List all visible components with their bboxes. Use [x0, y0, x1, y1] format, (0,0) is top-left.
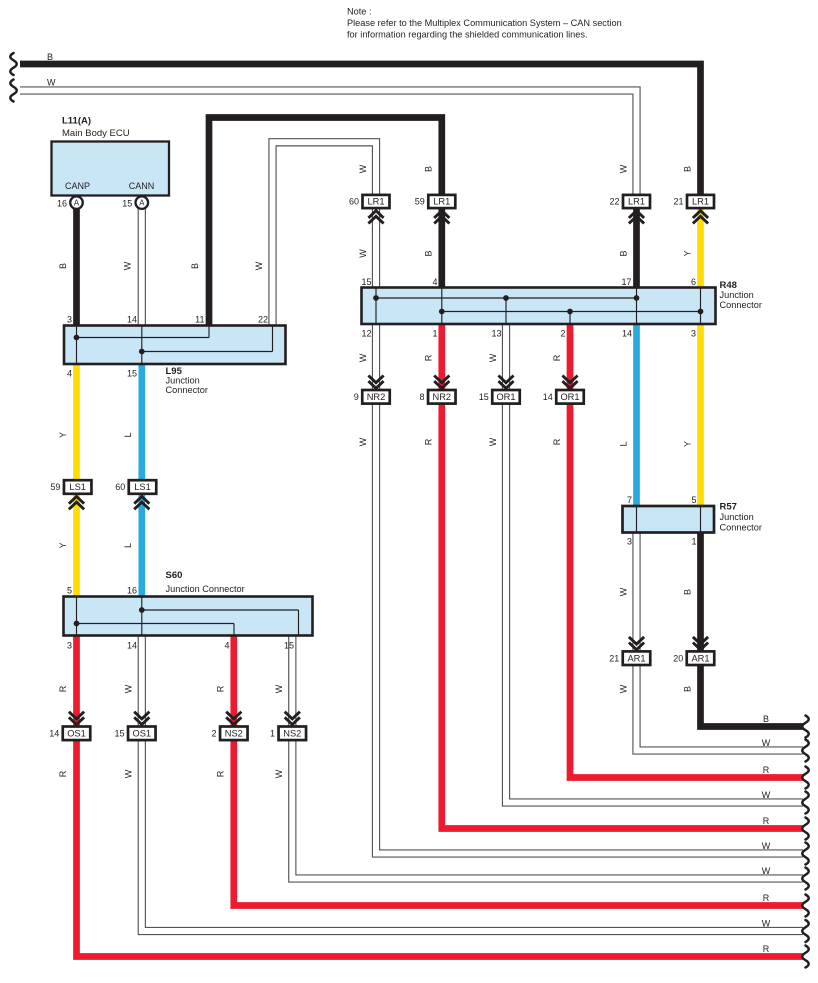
- svg-text:L: L: [123, 543, 133, 548]
- svg-text:Junction: Junction: [720, 512, 754, 522]
- svg-text:Junction: Junction: [166, 376, 200, 386]
- svg-text:60: 60: [349, 197, 359, 207]
- svg-text:12: 12: [361, 329, 371, 339]
- svg-text:16: 16: [127, 586, 137, 596]
- svg-text:Y: Y: [58, 542, 68, 548]
- svg-text:W: W: [619, 164, 629, 173]
- svg-text:B: B: [424, 250, 434, 256]
- svg-text:11: 11: [195, 315, 204, 325]
- svg-text:NS2: NS2: [283, 728, 301, 738]
- svg-text:Connector: Connector: [720, 523, 762, 533]
- svg-text:2: 2: [212, 729, 217, 739]
- svg-text:59: 59: [50, 482, 60, 492]
- svg-text:CANN: CANN: [129, 181, 155, 191]
- svg-text:R57: R57: [720, 502, 737, 513]
- svg-text:R: R: [763, 944, 770, 954]
- svg-text:LS1: LS1: [134, 482, 151, 492]
- svg-text:Main Body ECU: Main Body ECU: [62, 128, 130, 139]
- svg-text:Y: Y: [683, 441, 693, 447]
- svg-text:3: 3: [627, 537, 632, 547]
- svg-text:W: W: [762, 790, 771, 800]
- svg-text:W: W: [488, 353, 498, 362]
- svg-text:9: 9: [354, 392, 359, 402]
- svg-text:W: W: [762, 841, 771, 851]
- svg-text:B: B: [190, 263, 200, 269]
- svg-text:14: 14: [127, 315, 137, 325]
- svg-text:W: W: [274, 769, 284, 778]
- svg-text:CANP: CANP: [65, 181, 90, 191]
- svg-text:LR1: LR1: [433, 197, 450, 207]
- svg-text:21: 21: [673, 197, 683, 207]
- svg-text:21: 21: [609, 653, 619, 663]
- svg-text:3: 3: [691, 329, 696, 339]
- svg-text:5: 5: [67, 586, 72, 596]
- svg-text:B: B: [683, 686, 693, 692]
- svg-text:6: 6: [691, 277, 696, 287]
- svg-text:B: B: [683, 166, 693, 172]
- svg-text:W: W: [488, 437, 498, 446]
- svg-text:22: 22: [609, 197, 619, 207]
- svg-text:L11(A): L11(A): [62, 116, 91, 127]
- svg-text:B: B: [47, 52, 53, 62]
- svg-text:5: 5: [691, 495, 696, 505]
- svg-text:L: L: [619, 441, 629, 446]
- svg-text:14: 14: [622, 329, 632, 339]
- svg-text:W: W: [619, 587, 629, 596]
- svg-text:W: W: [358, 164, 368, 173]
- svg-text:15: 15: [115, 729, 125, 739]
- svg-text:Junction Connector: Junction Connector: [166, 584, 245, 594]
- svg-text:W: W: [274, 684, 284, 693]
- svg-text:22: 22: [258, 315, 268, 325]
- svg-text:W: W: [123, 261, 133, 270]
- svg-text:1: 1: [691, 537, 696, 547]
- svg-text:OR1: OR1: [560, 392, 579, 402]
- svg-text:R: R: [424, 438, 434, 445]
- svg-text:15: 15: [127, 369, 137, 379]
- svg-text:W: W: [762, 866, 771, 876]
- svg-text:16: 16: [57, 198, 67, 208]
- svg-text:14: 14: [49, 729, 59, 739]
- svg-text:15: 15: [361, 277, 371, 287]
- svg-text:15: 15: [122, 198, 132, 208]
- svg-text:20: 20: [673, 653, 683, 663]
- svg-text:R: R: [216, 770, 226, 777]
- svg-text:2: 2: [560, 329, 565, 339]
- svg-text:B: B: [683, 589, 693, 595]
- svg-text:R: R: [763, 765, 770, 775]
- svg-text:W: W: [762, 738, 771, 748]
- svg-text:13: 13: [491, 329, 501, 339]
- svg-text:NS2: NS2: [225, 728, 243, 738]
- svg-text:OS1: OS1: [132, 728, 151, 738]
- svg-text:Connector: Connector: [166, 385, 208, 395]
- svg-text:NR2: NR2: [367, 392, 386, 402]
- svg-text:Y: Y: [683, 250, 693, 256]
- svg-text:15: 15: [479, 392, 489, 402]
- svg-text:8: 8: [420, 392, 425, 402]
- svg-text:R: R: [216, 685, 226, 692]
- svg-text:14: 14: [127, 641, 137, 651]
- svg-text:LS1: LS1: [69, 482, 86, 492]
- svg-text:W: W: [358, 437, 368, 446]
- svg-text:4: 4: [67, 369, 72, 379]
- svg-text:B: B: [424, 166, 434, 172]
- svg-text:LR1: LR1: [692, 197, 709, 207]
- svg-text:Note :: Note :: [347, 7, 372, 17]
- svg-text:60: 60: [115, 482, 125, 492]
- svg-text:A: A: [139, 199, 145, 208]
- svg-text:L: L: [123, 432, 133, 437]
- svg-text:1: 1: [432, 329, 437, 339]
- svg-text:S60: S60: [166, 570, 183, 581]
- svg-text:OS1: OS1: [67, 728, 86, 738]
- svg-text:B: B: [58, 263, 68, 269]
- svg-text:W: W: [358, 353, 368, 362]
- svg-text:1: 1: [270, 729, 275, 739]
- svg-text:R: R: [552, 354, 562, 361]
- svg-text:W: W: [358, 249, 368, 258]
- svg-text:59: 59: [415, 197, 425, 207]
- svg-text:R: R: [424, 354, 434, 361]
- svg-text:Please refer to the Multiplex: Please refer to the Multiplex Communicat…: [347, 18, 622, 28]
- svg-text:R: R: [58, 770, 68, 777]
- svg-text:B: B: [763, 714, 769, 724]
- svg-text:3: 3: [67, 315, 72, 325]
- svg-text:R: R: [763, 893, 770, 903]
- svg-text:W: W: [254, 261, 264, 270]
- svg-text:OR1: OR1: [496, 392, 515, 402]
- svg-text:LR1: LR1: [628, 197, 645, 207]
- svg-text:AR1: AR1: [627, 653, 645, 663]
- svg-text:R: R: [58, 685, 68, 692]
- svg-text:W: W: [124, 684, 134, 693]
- svg-text:W: W: [124, 769, 134, 778]
- svg-text:Y: Y: [58, 432, 68, 438]
- svg-text:4: 4: [432, 277, 437, 287]
- svg-text:AR1: AR1: [691, 653, 709, 663]
- svg-text:W: W: [619, 684, 629, 693]
- svg-text:A: A: [74, 199, 80, 208]
- svg-text:R: R: [763, 816, 770, 826]
- svg-text:14: 14: [543, 392, 553, 402]
- svg-text:B: B: [619, 250, 629, 256]
- svg-text:NR2: NR2: [432, 392, 451, 402]
- svg-text:W: W: [47, 78, 56, 88]
- svg-text:for information regarding the: for information regarding the shielded c…: [347, 30, 588, 40]
- svg-text:7: 7: [627, 495, 632, 505]
- svg-text:LR1: LR1: [367, 197, 384, 207]
- svg-text:4: 4: [224, 641, 229, 651]
- svg-text:3: 3: [67, 641, 72, 651]
- svg-text:R: R: [552, 438, 562, 445]
- svg-text:17: 17: [621, 277, 631, 287]
- svg-text:Junction: Junction: [720, 290, 754, 300]
- svg-text:W: W: [762, 919, 771, 929]
- svg-text:Connector: Connector: [720, 300, 762, 310]
- svg-text:15: 15: [284, 641, 294, 651]
